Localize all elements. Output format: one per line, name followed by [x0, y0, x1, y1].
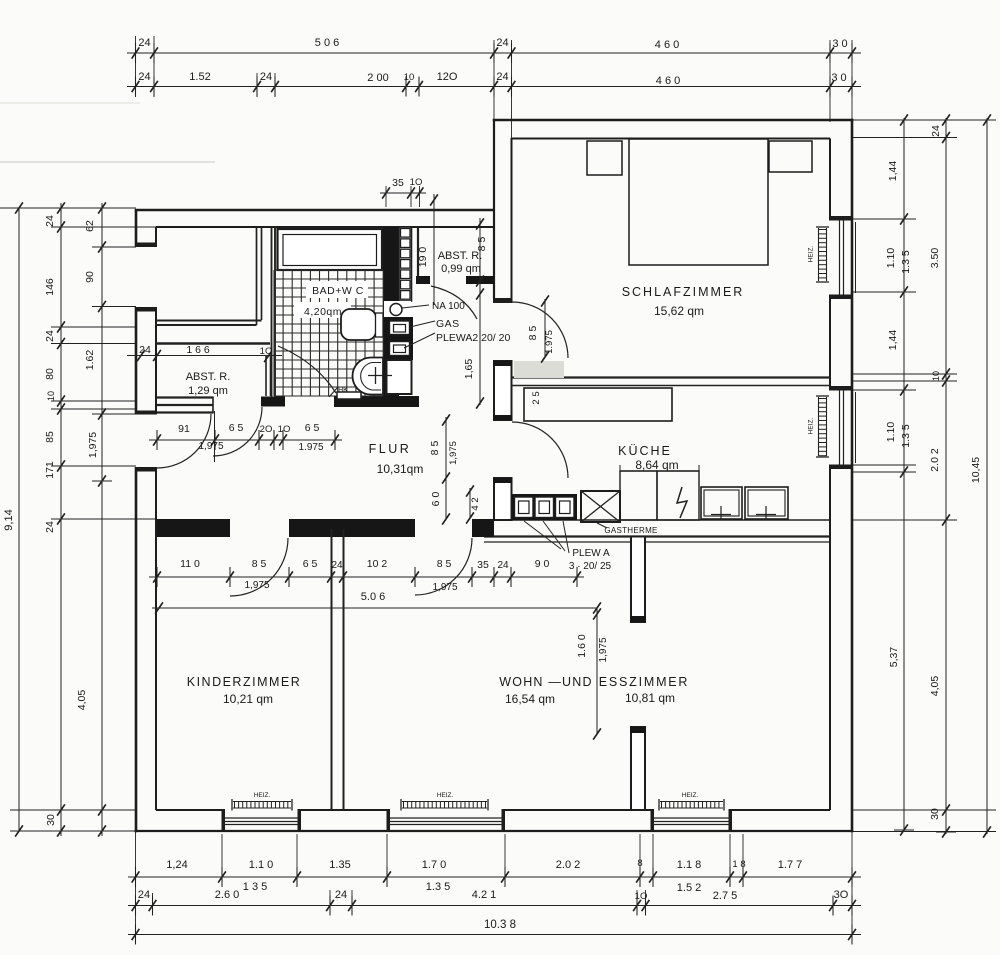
entrance door arc [157, 414, 211, 468]
gas plewa 220 upper square [390, 321, 410, 335]
schlaf-kueche divider wall [512, 376, 831, 378]
east exterior wall outer line [851, 119, 854, 833]
chimney flue squares [401, 229, 411, 238]
top dim row1 ticks [135, 43, 137, 63]
svg-text:HEIZ.: HEIZ. [254, 792, 271, 799]
svg-text:5 0 6: 5 0 6 [315, 37, 339, 49]
svg-text:24: 24 [930, 125, 942, 137]
svg-text:6 5: 6 5 [305, 422, 320, 434]
schlafzimmer top wall inner line [512, 138, 831, 140]
shaft mini dim 35-10 [380, 192, 426, 194]
svg-text:1,975: 1,975 [198, 441, 223, 452]
west wing top wall outer line [135, 209, 495, 212]
svg-text:1.35: 1.35 [329, 859, 350, 871]
schlafzimmer door arc [512, 302, 568, 358]
svg-text:10,45: 10,45 [970, 457, 982, 483]
svg-text:3O: 3O [834, 889, 849, 901]
plewa label leaders [524, 521, 561, 549]
svg-text:24: 24 [138, 37, 150, 49]
bath sink [353, 358, 384, 395]
svg-text:1.6 0: 1.6 0 [576, 634, 588, 658]
right extension lines [852, 119, 996, 121]
bottom extension lines [135, 831, 137, 943]
svg-text:1.7 7: 1.7 7 [778, 859, 802, 871]
svg-text:35: 35 [477, 559, 489, 571]
gastherme label leader [597, 523, 607, 528]
dim 4.2 at plewa [469, 488, 471, 519]
svg-text:24: 24 [497, 560, 509, 571]
svg-text:9 0: 9 0 [535, 558, 550, 570]
wohnzimmer radiator HEIZ [402, 801, 487, 803]
svg-text:HEIZ.: HEIZ. [437, 792, 454, 799]
abst099 dim 190 [433, 194, 435, 305]
svg-text:SCHLAFZIMMER: SCHLAFZIMMER [622, 285, 745, 299]
svg-text:1,975: 1,975 [87, 432, 99, 458]
kueche south wall line [512, 519, 831, 521]
kueche sink left [701, 487, 742, 519]
nightstand right [769, 141, 812, 172]
svg-text:4,20qm: 4,20qm [304, 306, 342, 318]
gastherme box [581, 491, 620, 522]
bath door arc [278, 346, 336, 393]
bath west wall [271, 227, 273, 397]
schlafzimmer top wall outer line [493, 119, 854, 122]
right dim col C line [986, 118, 988, 834]
abstellraum 1.29 south wall lines [157, 396, 213, 398]
svg-text:24: 24 [496, 71, 508, 83]
svg-text:2.7 5: 2.7 5 [713, 890, 737, 902]
kinderzimmer window glazing [223, 817, 299, 819]
flur south wall segment C [472, 519, 494, 537]
svg-text:WOHN —UND: WOHN —UND [499, 675, 592, 689]
schlafzimmer door dim 85 [544, 299, 546, 358]
svg-text:6 5: 6 5 [229, 422, 244, 434]
svg-text:HEIZ.: HEIZ. [808, 246, 815, 263]
svg-text:4 2: 4 2 [470, 497, 481, 510]
svg-text:3 · 20/ 25: 3 · 20/ 25 [569, 561, 612, 572]
svg-text:1.3 5: 1.3 5 [900, 250, 912, 274]
svg-text:3 0: 3 0 [832, 38, 847, 50]
svg-text:GASTHERME: GASTHERME [604, 526, 657, 535]
svg-text:KÜCHE: KÜCHE [618, 444, 672, 458]
plewa chimney block [512, 494, 577, 520]
svg-text:1.62: 1.62 [84, 350, 96, 371]
svg-text:0,99 qm: 0,99 qm [441, 263, 481, 275]
svg-text:1.1 8: 1.1 8 [677, 859, 701, 871]
flur-kueche wall cap below kueche door [493, 478, 513, 483]
paper texture line 2 [0, 102, 140, 104]
svg-text:24: 24 [44, 521, 56, 533]
schlafzimmer radiator HEIZ [818, 228, 820, 281]
kueche door arc [512, 422, 568, 478]
svg-text:24: 24 [496, 37, 508, 49]
schlafzimmer window glazing [839, 221, 841, 295]
svg-text:1,975: 1,975 [598, 637, 609, 662]
left dim col2 line [60, 203, 62, 836]
left wall opening caps [135, 243, 157, 248]
chimney shaft solid bar [383, 227, 399, 397]
svg-text:6 5: 6 5 [303, 558, 318, 570]
svg-text:PLEW A: PLEW A [572, 548, 610, 559]
top dim row 1 line [127, 52, 861, 54]
svg-text:10 2: 10 2 [367, 558, 388, 570]
gas plewa 220 box frame [386, 317, 413, 360]
kueche sink right [745, 487, 788, 519]
svg-text:FLUR: FLUR [369, 442, 412, 456]
bath mat rect [337, 392, 361, 399]
storage room south wall [156, 320, 262, 322]
bottom dim row 3 line [128, 905, 861, 907]
corridor dim 1.65 and 85 [479, 218, 481, 405]
flur-kueche wall lower segment [494, 478, 512, 520]
svg-text:24: 24 [260, 71, 272, 83]
svg-text:1,24: 1,24 [166, 859, 187, 871]
schlafzimmer window jamb caps [829, 216, 852, 221]
flur-kueche wall upper segment [494, 361, 512, 420]
svg-text:2O: 2O [260, 424, 273, 435]
svg-text:NA 100: NA 100 [432, 301, 465, 312]
svg-text:KINDERZIMMER: KINDERZIMMER [187, 675, 302, 689]
svg-text:24: 24 [44, 215, 56, 227]
svg-text:62: 62 [84, 220, 96, 232]
flur-kueche wall cap above kueche door [493, 415, 513, 420]
svg-text:2.6 0: 2.6 0 [215, 889, 239, 901]
flur south wall segment B [289, 519, 415, 537]
svg-text:4 6 0: 4 6 0 [656, 75, 680, 87]
svg-text:4 6 0: 4 6 0 [655, 39, 679, 51]
abstellraum-bath south wall piece [261, 397, 285, 407]
top dim row 2 line [127, 86, 861, 88]
svg-text:1 6 6: 1 6 6 [186, 344, 210, 356]
esszimmer radiator HEIZ [660, 801, 723, 803]
svg-text:24: 24 [138, 889, 150, 901]
bath label background [306, 281, 368, 298]
bottom exterior wall inner line [156, 809, 223, 811]
shaft lower box [387, 360, 412, 394]
svg-text:1O: 1O [410, 177, 423, 188]
kueche-wohnzimmer wall double line [484, 535, 830, 537]
svg-text:1O: 1O [278, 424, 291, 435]
right dim col A ticks [894, 119, 914, 121]
svg-text:10.3 8: 10.3 8 [484, 919, 516, 931]
bottom dim row3 ticks [135, 896, 137, 916]
east exterior wall inner line [829, 139, 831, 217]
svg-text:1.975: 1.975 [298, 442, 323, 453]
bottom exterior wall outer line [135, 830, 854, 832]
svg-text:GAS: GAS [436, 318, 460, 330]
flur upper dim extension at abst door jamb [214, 411, 216, 462]
toilet [341, 309, 376, 340]
flur-kueche wall cap top [493, 361, 513, 366]
kueche stove boxes [620, 470, 699, 472]
svg-text:1 8: 1 8 [732, 859, 745, 870]
svg-text:171: 171 [44, 461, 56, 479]
svg-text:1.975: 1.975 [544, 330, 555, 354]
svg-text:1,975: 1,975 [244, 580, 269, 591]
svg-text:8 5: 8 5 [476, 237, 488, 252]
west wing top wall inner line [156, 226, 494, 228]
svg-text:1,975: 1,975 [448, 441, 459, 465]
svg-text:1.10: 1.10 [885, 248, 897, 269]
exterior wall outer line left [135, 210, 138, 247]
abstellraum 1.29 north wall line [155, 342, 270, 344]
chimney shaft flue column [399, 227, 412, 301]
svg-text:35: 35 [392, 177, 404, 189]
svg-text:1.10: 1.10 [885, 422, 897, 443]
svg-text:1.3 5: 1.3 5 [426, 881, 450, 893]
svg-text:4.2 1: 4.2 1 [472, 889, 496, 901]
toilet tank [376, 313, 384, 337]
svg-text:80: 80 [44, 368, 56, 380]
kinderzimmer window jambs [222, 809, 226, 832]
bottom dim row 1 line [128, 876, 861, 878]
svg-text:24: 24 [138, 71, 150, 83]
svg-text:1.52: 1.52 [189, 71, 210, 83]
svg-text:90: 90 [84, 271, 96, 283]
label NA100 leader [402, 305, 429, 308]
nightstand left [587, 141, 622, 175]
svg-text:30: 30 [45, 814, 57, 826]
bottom dim row 4 line [128, 934, 861, 936]
svg-text:1 3 5: 1 3 5 [243, 881, 267, 893]
svg-text:5.0 6: 5.0 6 [361, 591, 385, 603]
svg-text:3.50: 3.50 [929, 248, 941, 269]
svg-text:12O: 12O [437, 71, 458, 83]
top dim row2 ticks [135, 77, 137, 97]
svg-text:15,62 qm: 15,62 qm [654, 304, 704, 318]
svg-text:1,975: 1,975 [432, 582, 457, 593]
wohnzimmer door arc [415, 538, 472, 595]
svg-text:HEIZ.: HEIZ. [682, 792, 699, 799]
svg-text:8,64 qm: 8,64 qm [635, 458, 678, 472]
svg-text:1.1 0: 1.1 0 [249, 859, 273, 871]
bath tub [278, 229, 383, 270]
left extension lines [0, 207, 136, 209]
right dim col B line [945, 118, 947, 834]
kinderzimmer door arc [230, 538, 288, 596]
abstellraum 1.29 east wall [265, 356, 267, 396]
kueche window jamb caps [829, 386, 852, 391]
svg-text:10: 10 [404, 72, 415, 83]
svg-text:4,05: 4,05 [76, 690, 88, 711]
svg-text:ESSZIMMER: ESSZIMMER [599, 675, 690, 689]
esszimmer window glazing [652, 817, 730, 819]
flur upper dim line [149, 439, 342, 441]
wohnzimmer window jambs [387, 809, 391, 832]
schlafzimmer west wall inner line [511, 138, 513, 298]
svg-text:1.5 2: 1.5 2 [677, 882, 701, 894]
svg-text:9,14: 9,14 [3, 509, 15, 530]
svg-text:HK: HK [338, 387, 348, 394]
svg-text:10,21 qm: 10,21 qm [223, 692, 273, 706]
svg-text:2 5: 2 5 [531, 391, 542, 404]
svg-text:ABST. R.: ABST. R. [186, 371, 231, 383]
svg-text:24: 24 [139, 344, 151, 356]
schlafzimmer pencil smudge [514, 361, 564, 378]
svg-text:10,31qm: 10,31qm [377, 462, 424, 476]
svg-text:HEIZ.: HEIZ. [808, 418, 815, 435]
svg-text:BAD+W C: BAD+W C [312, 285, 364, 297]
left dim col3 ticks [92, 207, 112, 209]
svg-text:1,44: 1,44 [887, 330, 899, 351]
paper texture line [0, 161, 215, 163]
right dim col B ticks [936, 119, 956, 121]
label GAS leaders [410, 321, 435, 327]
wohn-ess divider stub lower [631, 727, 645, 810]
abstellraum 0.99 south wall west piece [416, 276, 430, 284]
abstellraum 0.99 south wall east piece [466, 276, 494, 284]
svg-text:1.7 0: 1.7 0 [422, 859, 446, 871]
svg-text:10,81 qm: 10,81 qm [625, 691, 675, 705]
bath tile grid [274, 270, 383, 396]
wohn-ess opening dim 1.60 [596, 608, 598, 735]
svg-text:19 0: 19 0 [417, 247, 429, 268]
svg-text:8 5: 8 5 [252, 558, 267, 570]
left dim col2 ticks [51, 207, 71, 209]
svg-text:146: 146 [44, 278, 56, 296]
bath south wall east segment [334, 396, 419, 407]
svg-text:1,29 qm: 1,29 qm [188, 385, 228, 397]
kinderzimmer radiator HEIZ [233, 801, 291, 803]
top dim extension lines [135, 36, 137, 97]
svg-text:2.0 2: 2.0 2 [929, 448, 941, 472]
storage room east wall [256, 227, 258, 325]
wohnzimmer window glazing [388, 817, 503, 819]
svg-text:1.3 5: 1.3 5 [900, 424, 912, 448]
svg-text:6 0: 6 0 [430, 492, 442, 507]
kueche radiator HEIZ [818, 397, 820, 456]
svg-text:16,54 qm: 16,54 qm [505, 692, 555, 706]
flur south wall segment A kinderzimmer [157, 519, 230, 537]
svg-text:91: 91 [178, 423, 190, 435]
kueche door dim 85-60 [445, 417, 447, 519]
gas plewa 220 lower square [390, 342, 410, 356]
svg-text:24: 24 [335, 889, 347, 901]
schlafzimmer west wall cap at door [493, 298, 513, 303]
kueche counter [524, 388, 672, 421]
abst129 top dim line 24-166-10 [127, 355, 282, 357]
abstellraum 0.99 west wall [417, 227, 419, 276]
svg-text:3 0: 3 0 [831, 72, 846, 84]
svg-text:PLEWA2 20/ 20: PLEWA2 20/ 20 [436, 332, 510, 344]
left dim col3 line [101, 203, 103, 836]
svg-text:10: 10 [931, 371, 941, 381]
bath HK slash [329, 387, 338, 397]
svg-text:5,37: 5,37 [888, 647, 900, 668]
bottom dim row1 ticks [135, 867, 137, 887]
wohn-ess divider stub upper [631, 537, 645, 623]
svg-text:2.0 2: 2.0 2 [556, 859, 580, 871]
kinder-wohnzimmer divider wall [331, 529, 333, 810]
gas flue NA100 zone [384, 301, 411, 317]
right dim col A line [903, 118, 905, 831]
left dim col total 9.14 [18, 207, 20, 832]
svg-text:8 5: 8 5 [527, 326, 539, 341]
kueche stove lightning bolt [677, 487, 687, 518]
abstellraum 1.29 door arc [213, 407, 262, 456]
dim line 5.06 [152, 607, 597, 609]
gas flue NA100 circle [390, 304, 402, 316]
svg-text:1,65: 1,65 [463, 359, 475, 380]
flur south dim line [149, 576, 584, 578]
svg-text:1O: 1O [260, 346, 273, 357]
schlafzimmer west wall outer line [493, 120, 495, 298]
svg-text:85: 85 [44, 431, 56, 443]
abstellraum 0.99 door arc [431, 286, 477, 319]
svg-text:10: 10 [46, 391, 56, 401]
svg-text:1,44: 1,44 [887, 161, 899, 182]
bath sink faucet cross [368, 375, 392, 377]
svg-text:8 5: 8 5 [437, 558, 452, 570]
svg-text:24: 24 [331, 560, 343, 571]
svg-text:24: 24 [44, 330, 56, 342]
kueche window glazing [839, 391, 841, 465]
esszimmer window jambs [651, 809, 655, 832]
svg-text:11 0: 11 0 [180, 558, 200, 570]
svg-text:4,05: 4,05 [929, 676, 941, 697]
exterior wall inner line left [155, 227, 157, 247]
svg-text:2 00: 2 00 [367, 72, 388, 84]
svg-text:8 5: 8 5 [429, 441, 441, 456]
bed [629, 139, 768, 265]
